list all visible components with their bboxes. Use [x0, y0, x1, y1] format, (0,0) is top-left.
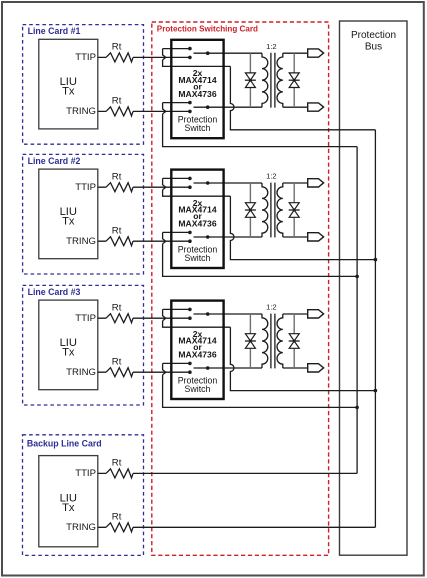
- svg-text:Tx: Tx: [62, 502, 75, 514]
- svg-text:TRING: TRING: [66, 522, 96, 533]
- svg-text:TTIP: TTIP: [75, 468, 96, 479]
- svg-text:Line Card #3: Line Card #3: [28, 287, 81, 297]
- svg-text:Line Card #1: Line Card #1: [28, 26, 81, 36]
- svg-text:Backup Line Card: Backup Line Card: [27, 439, 102, 449]
- svg-text:Rt: Rt: [112, 458, 122, 469]
- svg-text:Line Card #2: Line Card #2: [28, 156, 81, 166]
- svg-text:Protection Switching Card: Protection Switching Card: [157, 25, 258, 34]
- svg-text:Protection: Protection: [351, 30, 396, 41]
- svg-text:Rt: Rt: [112, 512, 122, 523]
- svg-text:Bus: Bus: [365, 42, 382, 53]
